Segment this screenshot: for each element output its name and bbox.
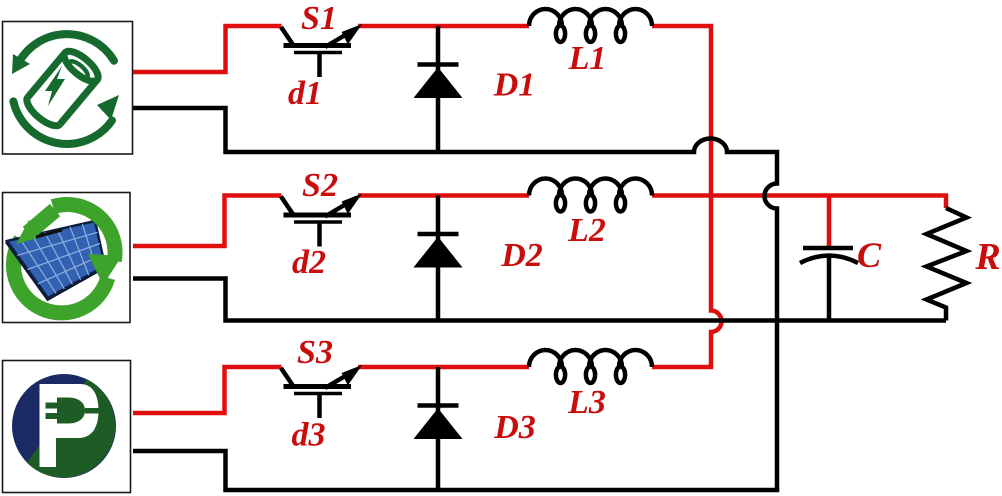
- wire: red rail row 2 from switch S2 to inductor L2: [358, 193, 529, 198]
- svg-text:D3: D3: [493, 409, 536, 446]
- source box: recycled battery icon: [3, 22, 133, 155]
- wire: red feed from battery source to riser, row 1: [133, 26, 282, 72]
- diode D1: [415, 26, 462, 152]
- svg-text:L2: L2: [567, 212, 606, 249]
- svg-text:d1: d1: [288, 75, 322, 112]
- transistor switch S1: [281, 26, 360, 77]
- wire: red rail row 3 from switch S3 to inductor L3: [358, 365, 529, 370]
- diode D2: [415, 196, 462, 321]
- source box: recycled solar panel icon: [3, 193, 131, 323]
- transistor switch S3: [281, 367, 360, 418]
- resistor R: [927, 208, 967, 321]
- inductor L2: [529, 179, 652, 212]
- svg-text:D1: D1: [493, 67, 536, 104]
- wire: black return from plug-in source, row 3, bottom bus: [133, 451, 779, 490]
- wire: black return from solar source, row 2, to resistor bottom: [133, 279, 946, 321]
- svg-text:d3: d3: [292, 417, 326, 454]
- inductor L3: [529, 350, 652, 383]
- svg-text:D2: D2: [500, 237, 543, 274]
- diode D3: [415, 367, 462, 490]
- wire: black return from battery row 1 with hop over red bus, then vertical x=777 with hop over red rail 2, down to bottom bus: [133, 108, 777, 490]
- svg-text:C: C: [857, 235, 882, 275]
- svg-text:L3: L3: [567, 384, 606, 421]
- wire: red rail row 2 from L2 across bus to resistor R: [652, 196, 946, 209]
- wire: red output bus from L1 down x=711 with hop over black return, to L3 rail: [652, 26, 722, 367]
- svg-text:d2: d2: [292, 244, 326, 281]
- inductor L1: [529, 9, 652, 42]
- wire: red feed from plug-in source to riser, row 3: [133, 367, 282, 413]
- transistor switch S2: [281, 196, 360, 247]
- svg-text:S3: S3: [297, 334, 333, 371]
- svg-text:R: R: [974, 236, 1000, 278]
- wire: red feed from solar source to riser, row 2: [133, 196, 282, 247]
- capacitor C: [800, 196, 858, 321]
- wire: red rail row 1 from switch S1 to inductor L1: [358, 24, 529, 29]
- source box: plug-in source icon: [3, 361, 131, 493]
- svg-text:S1: S1: [301, 0, 337, 37]
- svg-text:L1: L1: [568, 40, 607, 77]
- svg-text:S2: S2: [302, 167, 338, 204]
